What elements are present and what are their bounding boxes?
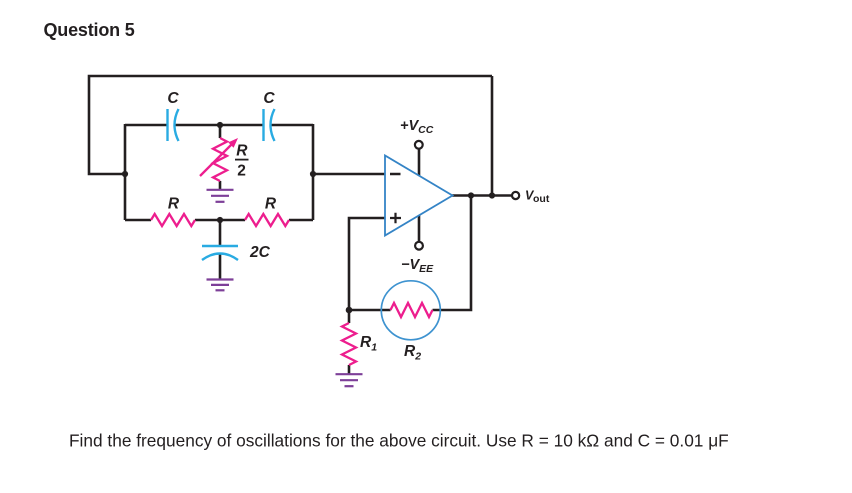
svg-text:2C: 2C <box>249 244 271 261</box>
svg-text:+VCC: +VCC <box>400 118 434 136</box>
wire: op-amp noninverting input down to R1/R2 node <box>349 218 386 310</box>
svg-text:C: C <box>263 90 275 107</box>
junction node dots <box>122 122 495 313</box>
wire: twin-T right vertical <box>312 124 315 220</box>
Vcc terminal circle <box>415 141 423 149</box>
wire: bottom branch left segment <box>125 219 151 222</box>
svg-text:−VEE: −VEE <box>401 257 434 275</box>
resistor R1 <box>342 323 356 365</box>
svg-text:R: R <box>265 196 277 213</box>
svg-text:Find the frequency of oscillat: Find the frequency of oscillations for t… <box>69 431 729 451</box>
svg-text:C: C <box>167 90 179 107</box>
wire: Vee supply stub <box>418 215 421 242</box>
svg-text:out: out <box>533 193 550 205</box>
resistor R2 (circled) <box>381 281 440 340</box>
capacitor C1 <box>168 109 179 141</box>
capacitor 2C <box>202 246 238 260</box>
wire: top branch right segment from C2 <box>271 124 314 127</box>
wire: bottom branch right segment <box>289 219 313 222</box>
node: top middle junction <box>217 122 223 128</box>
wire: top branch left segment to C1 <box>125 124 168 127</box>
svg-text:R1: R1 <box>360 334 377 354</box>
wire: R1 stem from node <box>348 310 351 323</box>
node: output junction 2 <box>489 192 495 198</box>
svg-text:R2: R2 <box>404 343 421 363</box>
wire: twin-T left vertical <box>124 124 127 220</box>
op-amp U1 <box>385 156 453 236</box>
rheostat R/2 <box>200 138 238 181</box>
wire: R/2 stem from top node <box>219 125 222 138</box>
svg-text:2: 2 <box>237 163 246 180</box>
Vout terminal circle <box>512 192 519 199</box>
wire: top branch middle segment C1 to C2 <box>175 124 264 127</box>
wire: right feedback vertical down to output node <box>491 76 494 196</box>
node: R1/R2 junction <box>346 307 353 314</box>
Vee terminal circle <box>415 242 423 250</box>
wire: R1 to ground <box>348 365 351 375</box>
node: right junction <box>310 171 316 177</box>
wire: node to R2 left end <box>349 309 391 312</box>
wire: output node down and left to R2 <box>433 196 472 311</box>
wire: R/2 to ground <box>219 181 222 190</box>
rheostat R/2 label (fraction) <box>235 143 249 180</box>
svg-text:R: R <box>168 196 180 213</box>
capacitor C2 <box>264 109 275 141</box>
wire: 2C stem from bottom node <box>219 220 222 246</box>
svg-text:Question 5: Question 5 <box>44 20 135 40</box>
resistor R (right) <box>245 214 289 226</box>
ground (below R/2) <box>207 190 234 202</box>
node: output junction 1 <box>468 192 474 198</box>
ground (below R1) <box>336 374 363 386</box>
wire: node to op-amp inverting input <box>313 173 386 176</box>
svg-text:R: R <box>236 143 248 160</box>
node: left junction <box>122 171 128 177</box>
wire: Vcc supply stub <box>418 149 421 177</box>
wire: top feedback from output to left side <box>89 76 492 174</box>
node: bottom middle junction <box>217 217 223 223</box>
wire: bottom branch middle segment <box>195 219 245 222</box>
resistor R (left) <box>151 214 195 226</box>
ground (below 2C) <box>207 280 234 291</box>
wire: 2C to ground <box>219 254 222 280</box>
wire: op-amp output to Vout terminal <box>451 194 512 197</box>
